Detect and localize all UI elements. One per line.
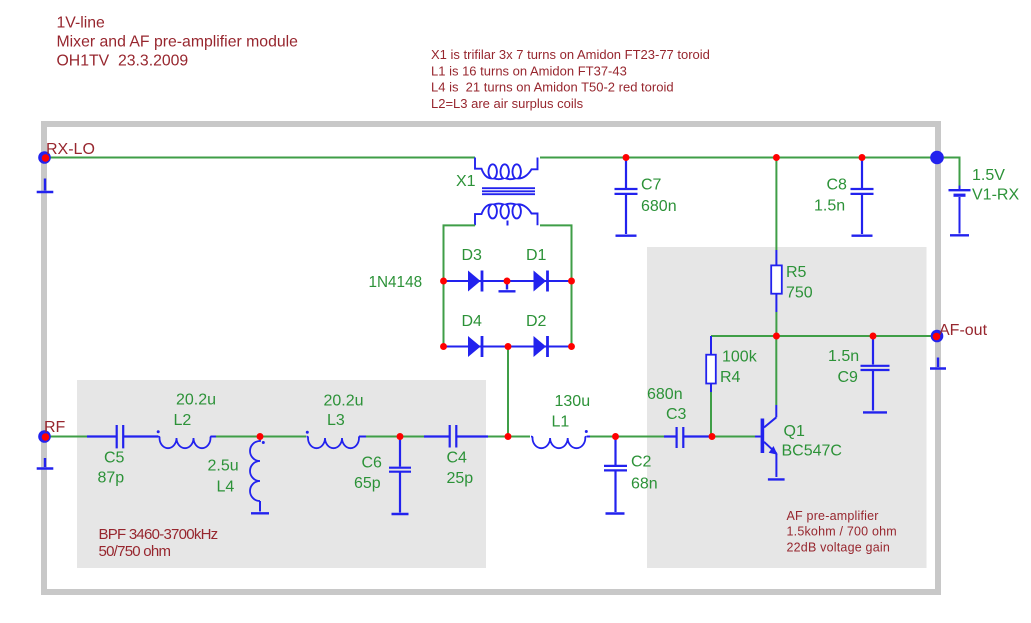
wire RX-LO rail left [44, 157, 475, 159]
wire R4 to base node [710, 392, 712, 437]
wire AF output rail [711, 335, 936, 337]
svg-text:L2=L3 are air surplus coils: L2=L3 are air surplus coils [431, 96, 584, 111]
capacitor C7 [615, 159, 638, 235]
wire ring output to RF rail [507, 347, 509, 437]
capacitor C3 [664, 427, 712, 448]
diode D3 [468, 271, 482, 292]
wire L1 to C3 [590, 436, 664, 438]
svg-text:2.5u: 2.5u [208, 457, 239, 474]
battery V1-RX [949, 186, 971, 234]
svg-text:L3: L3 [327, 412, 345, 429]
svg-text:C4: C4 [447, 449, 468, 466]
svg-text:BPF 3460-3700kHz: BPF 3460-3700kHz [99, 526, 218, 543]
svg-text:1V-line: 1V-line [57, 14, 106, 31]
ground C8 [852, 234, 873, 236]
ground RF [37, 458, 54, 469]
svg-text:L4 is 21 turns on Amidon T50-: L4 is 21 turns on Amidon T50-2 red toroi… [431, 80, 674, 95]
winding notes [431, 47, 710, 111]
svg-text:AF-out: AF-out [939, 322, 988, 339]
svg-text:87p: 87p [98, 469, 125, 486]
svg-text:L1 is 16 turns on Amidon FT37-: L1 is 16 turns on Amidon FT37-43 [431, 63, 627, 78]
inductor L4 [250, 439, 265, 512]
svg-text:100k: 100k [722, 349, 758, 366]
svg-text:X1 is trifilar 3x 7 turns on A: X1 is trifilar 3x 7 turns on Amidon FT23… [431, 47, 710, 62]
capacitor C9 [861, 337, 890, 411]
svg-text:680n: 680n [647, 386, 683, 403]
ground C2 [606, 512, 625, 514]
wire RX-LO rail right to battery [540, 158, 960, 186]
svg-text:C2: C2 [631, 454, 652, 471]
svg-text:D2: D2 [526, 313, 547, 330]
ground C9 [863, 411, 887, 413]
svg-text:C8: C8 [827, 176, 848, 193]
svg-text:D3: D3 [462, 247, 483, 264]
diode D1 [534, 271, 548, 292]
wire secondary right to ring [540, 225, 572, 346]
inductor L3 [306, 431, 366, 448]
ground C7 [616, 234, 637, 236]
ground at diode row 1 center [499, 284, 516, 292]
svg-text:50/750 ohm: 50/750 ohm [99, 543, 171, 560]
ground AF-out [930, 358, 946, 369]
capacitor C4 [424, 425, 488, 448]
AF annotation [787, 509, 897, 555]
svg-text:130u: 130u [555, 393, 591, 410]
transformer X1 [475, 158, 538, 226]
svg-text:1.5V: 1.5V [972, 167, 1005, 184]
svg-text:1N4148: 1N4148 [369, 274, 423, 291]
diode D2 [534, 336, 548, 357]
capacitor C5 [87, 425, 158, 448]
ground battery [950, 234, 969, 236]
ground L4 [251, 512, 269, 514]
svg-text:D4: D4 [462, 313, 483, 330]
svg-text:750: 750 [786, 285, 813, 302]
svg-text:20.2u: 20.2u [324, 393, 364, 410]
svg-text:R5: R5 [786, 264, 807, 281]
resistor R5 [771, 250, 782, 312]
wire R5 to collector rail [775, 312, 777, 336]
inductor L2 [157, 430, 216, 448]
svg-text:V1-RX: V1-RX [972, 187, 1019, 204]
svg-text:AF pre-amplifier: AF pre-amplifier [787, 509, 879, 523]
transistor Q1 [755, 405, 778, 477]
svg-text:L1: L1 [552, 413, 570, 430]
svg-text:RX-LO: RX-LO [46, 141, 95, 158]
resistor R4 [706, 336, 716, 392]
svg-text:C5: C5 [104, 450, 125, 467]
svg-text:RF: RF [44, 419, 66, 436]
ground Q1 emitter [768, 478, 785, 480]
capacitor C8 [851, 159, 874, 235]
svg-text:L2: L2 [174, 412, 192, 429]
svg-text:C9: C9 [838, 369, 859, 386]
inductor L1 [531, 430, 590, 448]
svg-text:C7: C7 [641, 176, 662, 193]
svg-text:680n: 680n [641, 198, 677, 215]
X1 center tap [507, 221, 509, 226]
wire base node to Q1 [712, 436, 755, 438]
title text [57, 14, 299, 69]
wire diode row 1 [444, 280, 572, 282]
wire diode row 2 [444, 346, 572, 348]
svg-text:BC547C: BC547C [782, 443, 842, 460]
svg-text:65p: 65p [354, 475, 381, 492]
svg-text:20.2u: 20.2u [176, 392, 216, 409]
node RF port [38, 430, 51, 443]
capacitor C6 [389, 438, 411, 513]
ground RX-LO [37, 179, 54, 193]
svg-text:C6: C6 [362, 454, 383, 471]
svg-text:R4: R4 [720, 369, 741, 386]
svg-text:Mixer and AF pre-amplifier mod: Mixer and AF pre-amplifier module [57, 33, 299, 50]
svg-text:Q1: Q1 [784, 423, 805, 440]
svg-text:1.5n: 1.5n [814, 198, 845, 215]
node RX-LO port [38, 151, 51, 164]
svg-text:L4: L4 [217, 479, 235, 496]
wire L3 to C4 [366, 436, 424, 438]
wire secondary left to ring [444, 225, 476, 346]
svg-text:D1: D1 [526, 247, 547, 264]
svg-text:C3: C3 [666, 406, 687, 423]
svg-text:22dB voltage gain: 22dB voltage gain [787, 540, 890, 554]
BPF annotation [99, 526, 218, 560]
wire Q1 collector to rail [775, 336, 777, 405]
ground C6 [392, 513, 409, 515]
svg-text:1.5kohm / 700 ohm: 1.5kohm / 700 ohm [787, 525, 897, 539]
svg-text:68n: 68n [631, 475, 658, 492]
node AF-out port [931, 330, 944, 343]
AF pre-amplifier region shading [647, 247, 927, 568]
wire RF rail [44, 436, 87, 438]
capacitor C2 [604, 438, 627, 513]
diode D4 [468, 336, 482, 357]
svg-text:25p: 25p [447, 470, 474, 487]
wire C4 to L1 [488, 436, 530, 438]
BPF filter region shading [77, 380, 486, 568]
svg-text:1.5n: 1.5n [828, 348, 859, 365]
node V+ top right [930, 151, 944, 165]
wire R5 branch [775, 159, 777, 251]
svg-text:OH1TV 23.3.2009: OH1TV 23.3.2009 [57, 53, 189, 70]
svg-text:X1: X1 [456, 173, 476, 190]
wire L2 to L3 [216, 436, 306, 438]
